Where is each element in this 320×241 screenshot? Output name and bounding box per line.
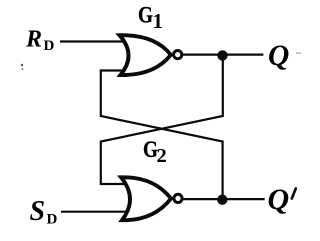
label G1 (138, 2, 163, 33)
wire: feedback from node Q' up to G1 lower input (with crossover diagonal) (101, 71, 223, 196)
inversion bubble of G1 (174, 51, 182, 59)
svg-text:Q: Q (268, 183, 290, 216)
svg-text:D: D (47, 212, 58, 228)
junction node Q' (217, 195, 227, 205)
junction node Q (217, 50, 227, 60)
NOR gate G1 (120, 35, 171, 75)
wire: G2 output to Q' (183, 198, 265, 200)
svg-text:R: R (25, 26, 42, 52)
svg-text:2: 2 (157, 145, 167, 167)
wire: S_D input to G2 lower input (61, 211, 131, 213)
svg-text:D: D (44, 38, 55, 54)
wire: feedback from node Q down to G2 upper input (with crossover diagonal) (101, 60, 223, 184)
label R_D (25, 26, 55, 54)
label S_D (30, 196, 58, 228)
svg-text:1: 1 (153, 9, 164, 33)
wire: R_D input to G1 upper input (60, 40, 125, 42)
wire: G1 output to Q (183, 53, 264, 55)
svg-text:Q: Q (268, 40, 289, 72)
svg-text:S: S (30, 196, 46, 227)
inversion bubble of G2 (174, 194, 182, 202)
NOR gate G2 (121, 177, 171, 220)
label Q' (268, 183, 296, 216)
label G2 (143, 137, 167, 167)
svg-text:G: G (138, 2, 153, 28)
